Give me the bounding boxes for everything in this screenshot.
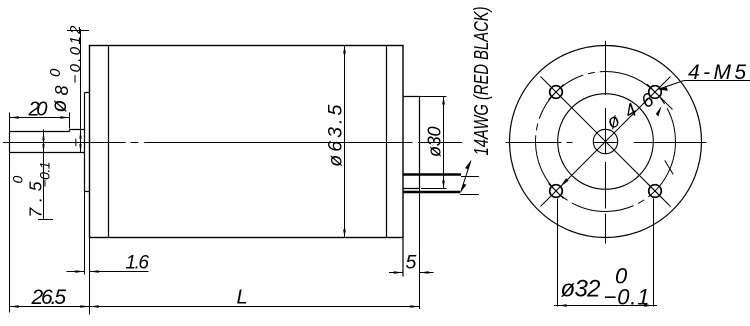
bottom dimension line 26.5 and L (10, 306, 420, 308)
svg-text:ø: ø (48, 100, 71, 113)
dimension 1.6 line right (90, 271, 149, 273)
diagonal centerline NW-SE (541, 77, 671, 207)
dia 63.5 dimension line (344, 46, 346, 238)
dia 30 extension bottom (421, 188, 447, 190)
svg-text:L: L (237, 287, 248, 309)
dia 8 dim cap bar (67, 30, 89, 32)
rear boss outline (403, 97, 420, 189)
shaft outline with flat (10, 130, 85, 153)
mounting hole top-left (550, 86, 563, 99)
lead wire 1 (thick) (403, 173, 461, 176)
dimension 7.5 line (43, 130, 45, 220)
arrow dia63.5 bottom (343, 230, 346, 238)
hole tick top-left (549, 85, 564, 100)
dimension 20 line (10, 117, 70, 119)
arrow L right (410, 305, 419, 308)
front view outer circle (510, 46, 702, 238)
extension line body front face (89, 238, 91, 315)
left extension line (shaft tip) (9, 113, 11, 313)
svg-text:ø30: ø30 (425, 127, 445, 158)
extension line lip front (84, 192, 86, 275)
dia 30 dimension line (443, 97, 445, 189)
mounting hole bottom-left (550, 185, 563, 198)
leader line for 14AWG wires (461, 161, 472, 193)
dia 32 dimension line (554, 305, 657, 307)
small tick near shaft centerline (75, 139, 77, 147)
motor body outline (90, 46, 404, 238)
arrow 14AWG bottom (461, 184, 467, 193)
arrow dia63.5 top (343, 46, 346, 54)
svg-text:−0.1: −0.1 (37, 162, 53, 188)
arrow dia8 bottom (79, 144, 81, 152)
svg-text:ø63.5: ø63.5 (325, 105, 347, 167)
lead wire 2 thin extension (460, 194, 479, 196)
arrow 20 right (60, 116, 69, 118)
arrow 1.6 left (outside) (75, 270, 84, 273)
arrow 7.5 bottom (42, 144, 44, 152)
dimension 7.5 cap bar (38, 219, 53, 221)
svg-text:20: 20 (28, 99, 48, 121)
arrow dia46 NE (656, 106, 662, 117)
arrow 5 right (outside) (420, 271, 429, 274)
hole tick top-right (long) (647, 84, 673, 110)
svg-text:−0.1: −0.1 (604, 285, 650, 310)
rear end-bell line (386, 46, 388, 238)
front view pilot boss circle dia 32 (558, 94, 654, 190)
svg-text:0: 0 (47, 68, 64, 77)
dia 8 dimension line (80, 29, 82, 153)
arrow dia30 bottom (442, 181, 445, 189)
front end-bell line (108, 46, 110, 238)
lead wire 2 (thick) (403, 191, 460, 194)
front pilot boss (1.6 lip) (85, 93, 90, 192)
hole tick bottom-right (648, 184, 663, 199)
dimension 1.6 line left (67, 271, 85, 273)
svg-text:8: 8 (52, 85, 72, 95)
arrow 7.5 top (42, 132, 44, 140)
diagonal centerline NE-SW (541, 77, 671, 207)
svg-text:5: 5 (406, 252, 417, 274)
arrow 26.5 left (10, 305, 19, 308)
stray radial dash (665, 160, 674, 174)
arrow 20 left (10, 116, 19, 118)
arrow 1.6 right (outside) (90, 270, 99, 273)
svg-text:4-M5: 4-M5 (688, 61, 746, 84)
front view horizontal centerline (506, 142, 707, 144)
svg-text:0: 0 (10, 176, 26, 184)
arrow 14AWG top (465, 161, 471, 170)
front view shaft circle dia 8 (593, 129, 617, 153)
arrow dia30 top (442, 97, 445, 105)
dimension 5 line left (389, 272, 403, 274)
centerline side view (3, 142, 462, 144)
mounting hole bottom-right (649, 185, 662, 198)
dimension 20 right extension (69, 113, 71, 129)
mounting hole top-right (649, 86, 662, 99)
4-M5 leader (659, 81, 684, 90)
front view vertical centerline (605, 41, 607, 244)
extension line boss rear (419, 189, 421, 310)
svg-text:ø32: ø32 (561, 276, 601, 303)
front view bolt circle dia 46 (536, 72, 676, 212)
arrow dia46 SW (561, 178, 569, 186)
arrow dia32 right (644, 304, 653, 307)
dia 32 extension right (653, 199, 655, 307)
arrow L left (90, 305, 99, 308)
extension line rear face (402, 238, 404, 277)
arrow dia32 left (558, 304, 567, 307)
arrow 5 left (outside) (394, 271, 403, 274)
svg-text:26.5: 26.5 (31, 286, 67, 309)
svg-text:1.6: 1.6 (126, 253, 150, 274)
dia 32 extension left (557, 199, 559, 307)
dia 30 extension top (403, 96, 447, 98)
arrow 4-M5 leader (658, 87, 668, 91)
arrow dia8 top (79, 130, 81, 138)
lead wire 1 thin extension (461, 176, 479, 178)
svg-text:14AWG (RED BLACK): 14AWG (RED BLACK) (471, 7, 493, 156)
hole tick bottom-left (549, 184, 564, 199)
dimension 5 line right (420, 272, 434, 274)
arrow 26.5 right (80, 305, 89, 308)
4-M5 leader underline (684, 80, 750, 82)
